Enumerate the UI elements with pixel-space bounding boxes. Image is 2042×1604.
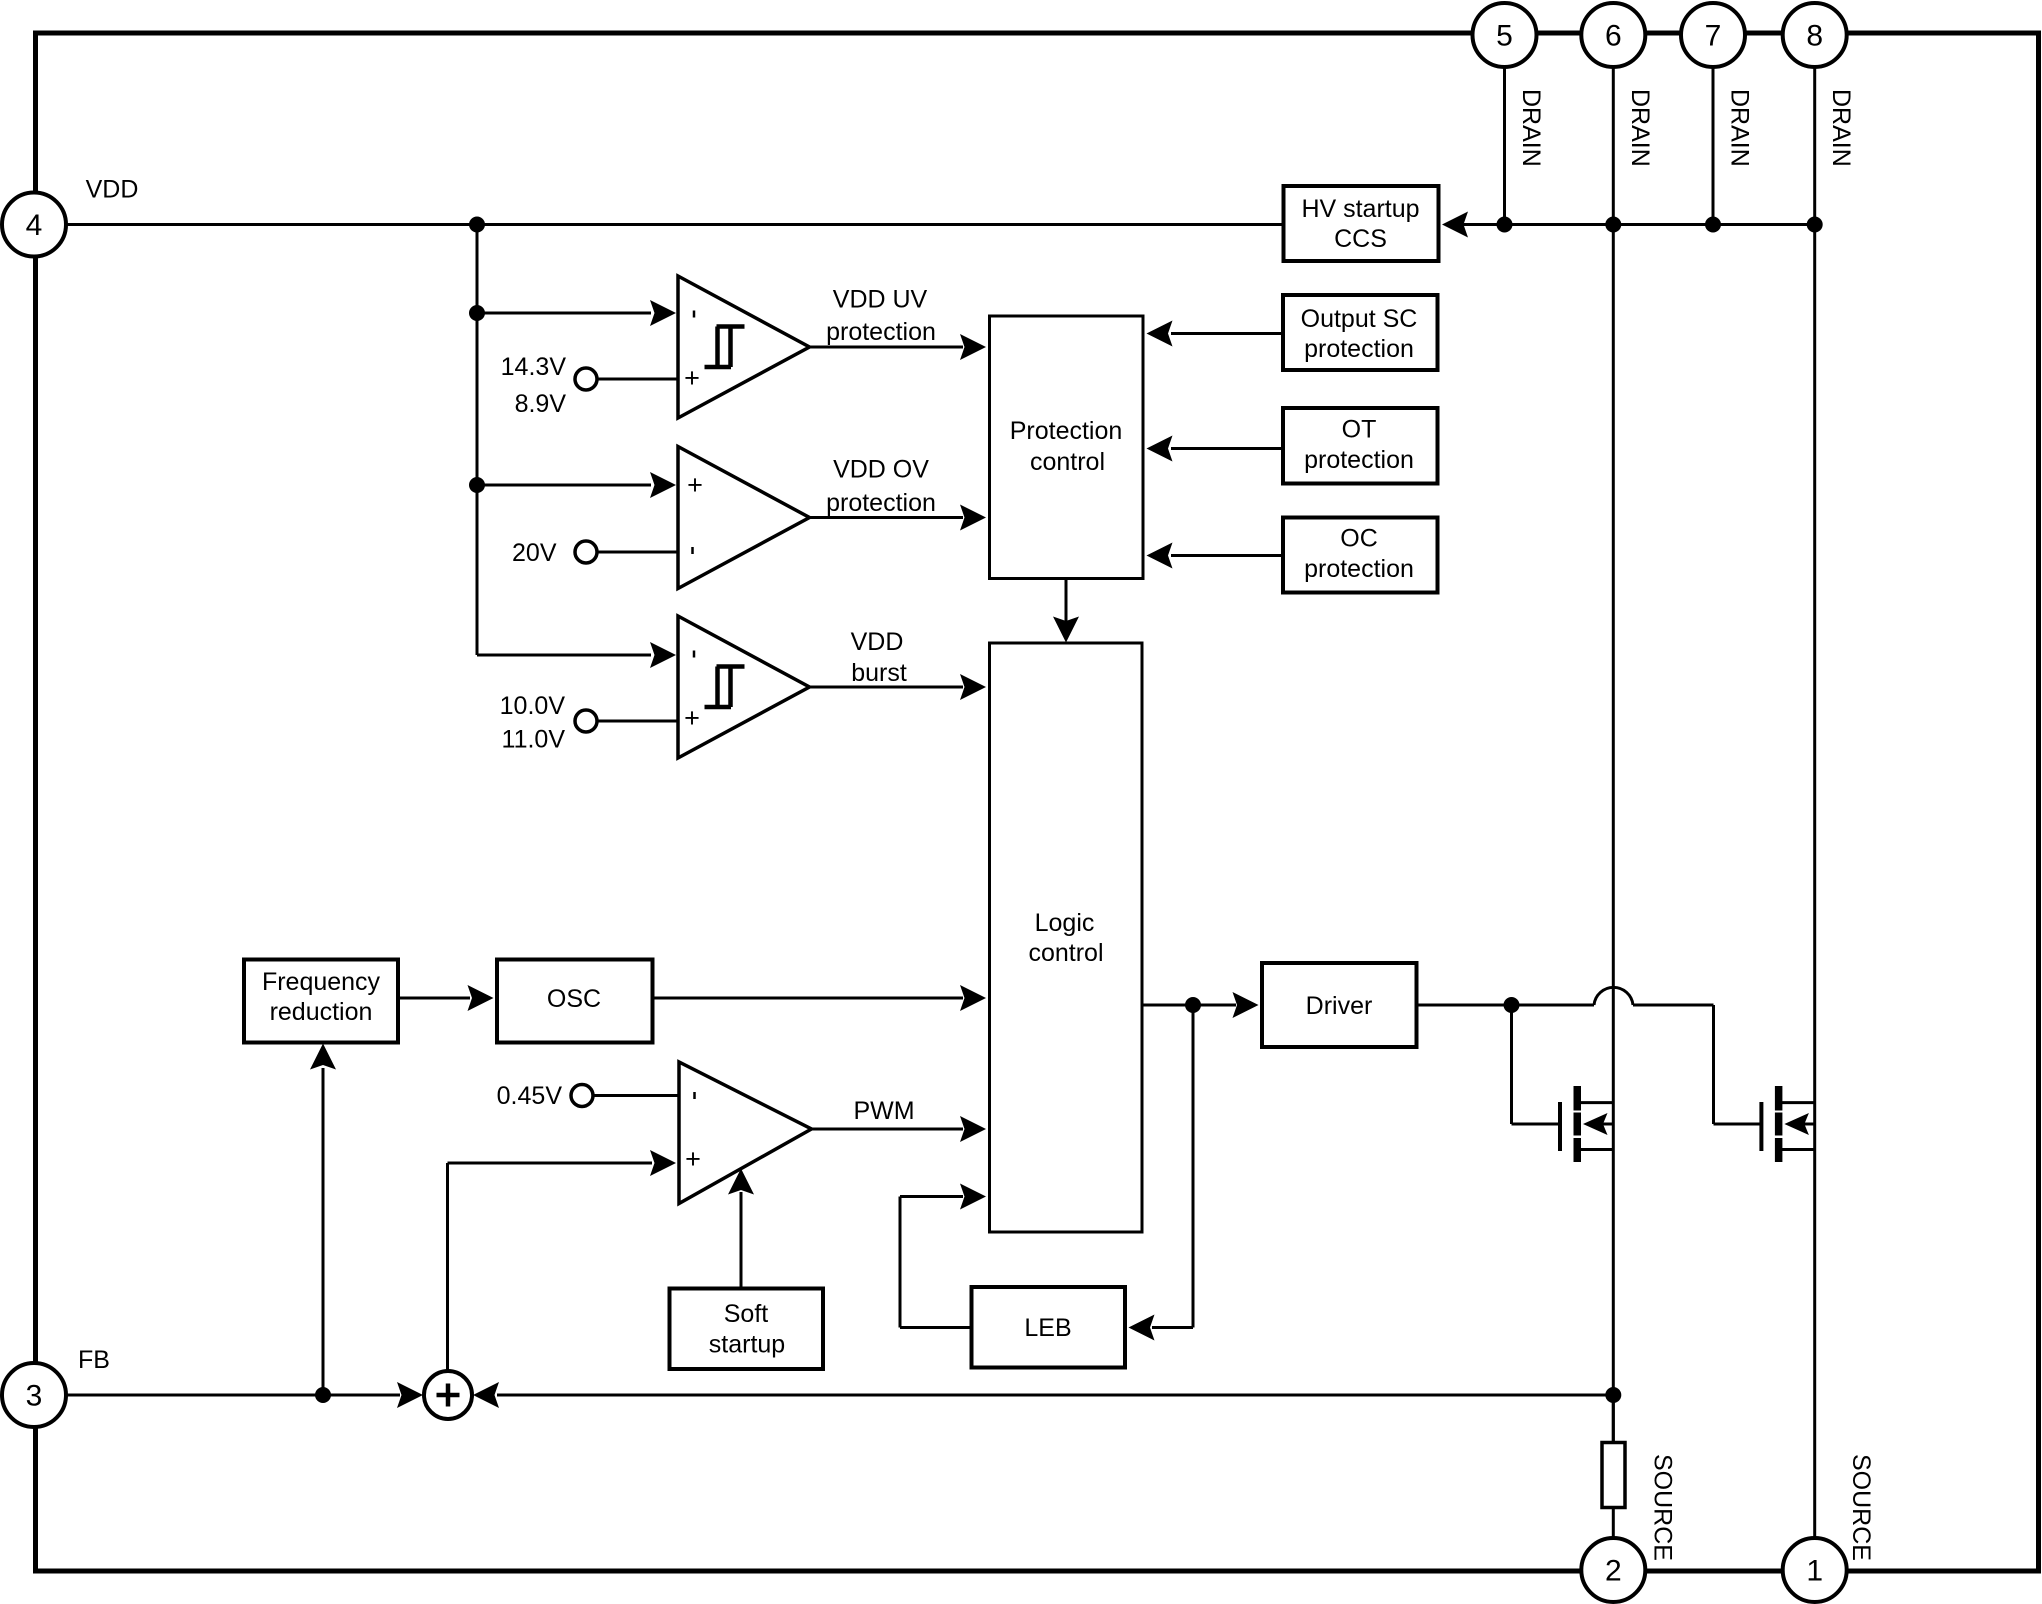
svg-text:+: +: [687, 470, 703, 500]
svg-text:4: 4: [26, 209, 43, 242]
svg-text:LEB: LEB: [1024, 1314, 1071, 1342]
svg-text:+: +: [684, 363, 700, 393]
svg-text:Protection: Protection: [1010, 417, 1123, 445]
svg-text:Logic: Logic: [1035, 909, 1095, 937]
svg-text:Driver: Driver: [1306, 992, 1373, 1020]
svg-text:14.3V: 14.3V: [501, 353, 567, 381]
svg-text:protection: protection: [1304, 446, 1414, 474]
svg-text:7: 7: [1705, 20, 1722, 53]
svg-text:protection: protection: [826, 489, 936, 517]
svg-text:protection: protection: [1304, 555, 1414, 583]
svg-text:SOURCE: SOURCE: [1649, 1454, 1677, 1561]
svg-text:Frequency: Frequency: [262, 968, 381, 996]
svg-text:SOURCE: SOURCE: [1847, 1454, 1875, 1561]
svg-text:+: +: [684, 703, 700, 733]
svg-text:OT: OT: [1342, 416, 1377, 444]
svg-text:burst: burst: [851, 659, 907, 687]
svg-text:5: 5: [1496, 20, 1513, 53]
svg-text:VDD: VDD: [86, 176, 139, 204]
svg-text:8: 8: [1806, 20, 1823, 53]
svg-text:10.0V: 10.0V: [500, 692, 566, 720]
svg-text:VDD UV: VDD UV: [833, 286, 928, 314]
svg-text:11.0V: 11.0V: [502, 726, 566, 754]
svg-text:VDD OV: VDD OV: [833, 456, 929, 484]
svg-text:FB: FB: [78, 1346, 110, 1374]
svg-text:1: 1: [1806, 1555, 1823, 1588]
svg-text:0.45V: 0.45V: [497, 1082, 563, 1110]
svg-text:control: control: [1028, 939, 1103, 967]
svg-text:2: 2: [1605, 1555, 1622, 1588]
svg-text:VDD: VDD: [851, 628, 904, 656]
svg-text:OSC: OSC: [547, 985, 601, 1013]
svg-text:8.9V: 8.9V: [515, 390, 567, 418]
svg-text:control: control: [1030, 448, 1105, 476]
svg-text:OC: OC: [1340, 525, 1378, 553]
svg-text:20V: 20V: [512, 539, 557, 567]
svg-text:DRAIN: DRAIN: [1726, 89, 1754, 167]
svg-text:DRAIN: DRAIN: [1517, 89, 1545, 167]
svg-text:DRAIN: DRAIN: [1626, 89, 1654, 167]
svg-text:Output SC: Output SC: [1301, 305, 1418, 333]
svg-text:HV startup: HV startup: [1301, 195, 1419, 223]
svg-text:PWM: PWM: [853, 1097, 914, 1125]
svg-text:protection: protection: [1304, 335, 1414, 363]
svg-text:CCS: CCS: [1334, 225, 1387, 253]
svg-text:reduction: reduction: [270, 998, 373, 1026]
svg-text:protection: protection: [826, 318, 936, 346]
svg-text:+: +: [685, 1144, 701, 1174]
svg-text:3: 3: [26, 1380, 43, 1413]
svg-text:Soft: Soft: [724, 1300, 769, 1328]
svg-text:6: 6: [1605, 20, 1622, 53]
svg-text:startup: startup: [709, 1331, 785, 1359]
svg-text:DRAIN: DRAIN: [1827, 89, 1855, 167]
